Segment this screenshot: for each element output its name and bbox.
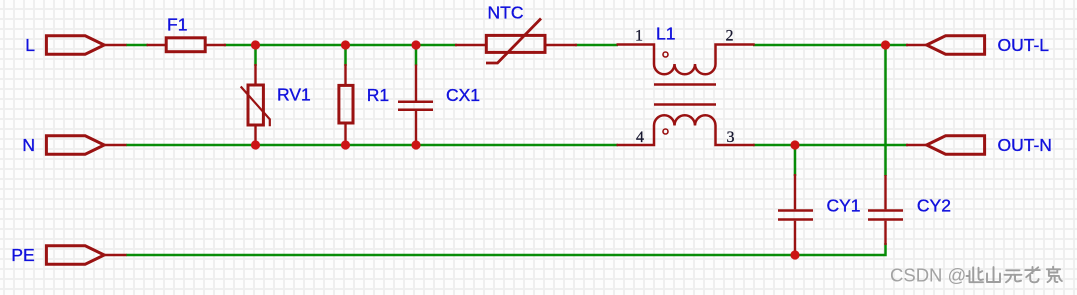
pin lead connector L [104,44,126,46]
wire R1 branch top [344,45,347,66]
svg-text:NTC: NTC [488,3,524,23]
svg-text:CX1: CX1 [446,85,480,105]
wire RV1 branch top [254,45,257,66]
wire L1 pin2 to OUT-L [753,44,908,47]
svg-text:F1: F1 [167,15,187,35]
wire L row: connector L to F1 [126,44,148,47]
connector OUT-N [927,136,985,154]
junction N/CY1 [790,140,799,149]
svg-text:CY1: CY1 [827,196,861,216]
connector PE [46,246,104,264]
junction N/RV1 [251,140,260,149]
junction N/CX1 [411,140,420,149]
watermark chinese glyphs [967,267,1062,283]
connector N [46,136,104,154]
svg-text:L1: L1 [656,24,675,44]
wire CY2 branch top [884,45,887,176]
svg-text:4: 4 [636,129,644,146]
connector L [46,36,104,54]
wire CY1 branch top [794,145,797,176]
svg-text:RV1: RV1 [277,85,311,105]
capacitor CY2 [868,175,903,245]
svg-text:CSDN @: CSDN @ [890,265,966,286]
capacitor CY1 [778,174,813,255]
wire NTC to L1 pin1 [575,44,618,47]
svg-text:OUT-L: OUT-L [998,35,1050,55]
pin lead connector N [104,144,126,146]
pin lead connector OUT-L [906,44,927,46]
junction PE/CY1 [790,250,799,259]
wire L1 pin3 to OUT-N [753,144,908,147]
wire L row mid: F1 to NTC [224,44,457,47]
svg-text:R1: R1 [367,85,389,105]
svg-text:2: 2 [726,28,734,45]
svg-text:PE: PE [11,245,34,265]
thermistor NTC [455,19,577,64]
wire CX1 branch top [415,45,418,66]
inductor L1 top winding [617,45,755,75]
fuse F1 [147,38,227,52]
junction N/R1 [341,140,350,149]
wire N row [126,144,618,147]
svg-text:3: 3 [727,129,735,146]
pin lead connector OUT-N [906,144,927,146]
varistor RV1 [241,64,270,145]
svg-text:CY2: CY2 [917,196,951,216]
inductor L1 bottom winding [617,115,755,145]
svg-text:1: 1 [635,28,643,45]
svg-text:N: N [22,135,35,155]
junction L/R1 [341,40,350,49]
pin lead connector PE [104,254,126,256]
junction L/CX1 [411,40,420,49]
wire PE row [126,243,886,255]
capacitor CX1 [398,65,433,146]
svg-text:OUT-N: OUT-N [998,135,1052,155]
svg-text:L: L [25,35,35,55]
connector OUT-L [927,36,985,54]
resistor R1 [339,64,353,145]
junction L/CY2 [881,40,890,49]
junction L/RV1 [251,40,260,49]
inductor L1 core [654,85,716,105]
